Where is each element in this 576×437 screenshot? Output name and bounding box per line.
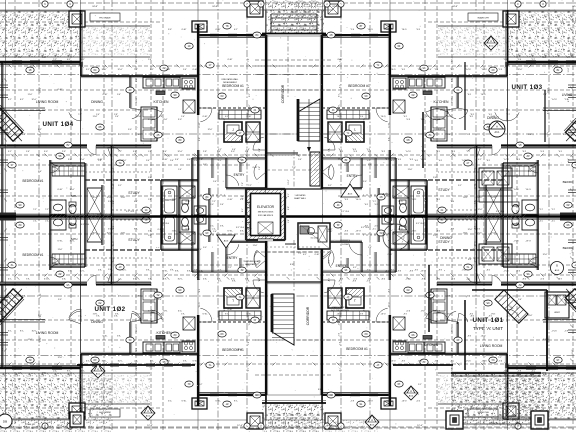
svg-text:6'-10": 6'-10" xyxy=(388,254,393,256)
svg-text:8'-3": 8'-3" xyxy=(248,229,252,231)
corner exterior stair xyxy=(0,105,28,146)
svg-text:11'-6": 11'-6" xyxy=(178,243,183,245)
svg-text:6'-10": 6'-10" xyxy=(103,94,108,96)
bath fixtures: vanity, wc, tub xyxy=(50,200,66,215)
svg-text:12'-0": 12'-0" xyxy=(117,69,122,71)
svg-text:6'-10": 6'-10" xyxy=(182,29,187,31)
svg-text:FIN GRADE: FIN GRADE xyxy=(99,17,111,20)
svg-text:UNIT 1Ø1: UNIT 1Ø1 xyxy=(472,317,503,324)
svg-text:12'-0": 12'-0" xyxy=(122,160,127,162)
svg-text:12'-0": 12'-0" xyxy=(468,229,473,231)
exterior walls xyxy=(198,34,266,36)
svg-text:8'-3": 8'-3" xyxy=(468,259,472,261)
svg-text:4'-1": 4'-1" xyxy=(22,134,26,136)
svg-text:BATH: BATH xyxy=(383,192,390,196)
svg-text:9'-1": 9'-1" xyxy=(238,159,242,161)
svg-text:DINING: DINING xyxy=(487,116,499,120)
svg-text:9'-1" CLG: 9'-1" CLG xyxy=(236,227,245,229)
svg-text:STAIR NOTES SEE: STAIR NOTES SEE xyxy=(332,306,350,309)
svg-text:UNIT 1Ø4: UNIT 1Ø4 xyxy=(42,121,73,128)
svg-text:6'-10": 6'-10" xyxy=(199,122,201,127)
quadrant linework: unit walls, grid, fixtures xyxy=(0,0,294,216)
svg-text:UNIT 1Ø2: UNIT 1Ø2 xyxy=(94,306,125,313)
svg-text:1'-4": 1'-4" xyxy=(194,160,198,162)
svg-text:BATH #2: BATH #2 xyxy=(165,199,175,202)
svg-text:2'-8": 2'-8" xyxy=(288,206,290,210)
mech room xyxy=(298,223,330,249)
svg-text:11'-6": 11'-6" xyxy=(163,119,168,121)
svg-text:11'-6": 11'-6" xyxy=(42,57,47,59)
entry steps xyxy=(271,13,317,15)
svg-text:11'-6": 11'-6" xyxy=(113,167,115,172)
svg-text:11'-6": 11'-6" xyxy=(249,104,251,109)
svg-text:A3.0: A3.0 xyxy=(489,44,494,47)
svg-text:PLAN 1/8: PLAN 1/8 xyxy=(25,423,35,426)
svg-text:9'-1" CLG: 9'-1" CLG xyxy=(496,211,505,213)
svg-text:12'-4": 12'-4" xyxy=(327,425,333,427)
svg-text:9'-1": 9'-1" xyxy=(150,69,154,71)
svg-text:LNDRY: LNDRY xyxy=(554,312,561,314)
svg-text:9'-1": 9'-1" xyxy=(328,185,332,187)
svg-text:BEDROOM #1: BEDROOM #1 xyxy=(23,253,44,257)
svg-text:KITCHEN: KITCHEN xyxy=(154,100,169,104)
svg-text:7'-2": 7'-2" xyxy=(224,128,226,132)
svg-text:3'-0": 3'-0" xyxy=(128,129,132,131)
svg-text:CORRIDOR: CORRIDOR xyxy=(306,306,310,325)
wall junction boxes xyxy=(69,11,85,27)
svg-text:7'-2": 7'-2" xyxy=(248,58,250,62)
svg-text:3'-0": 3'-0" xyxy=(433,177,437,179)
svg-text:9'-1" CLG: 9'-1" CLG xyxy=(126,211,135,213)
svg-text:2'-8": 2'-8" xyxy=(148,119,152,121)
svg-text:PORCH SLAB: PORCH SLAB xyxy=(489,423,505,426)
svg-text:CORRIDOR: CORRIDOR xyxy=(281,84,285,103)
svg-text:LIVING ROOM: LIVING ROOM xyxy=(36,100,59,104)
svg-text:1'-4": 1'-4" xyxy=(217,151,221,153)
svg-text:TEMPERED GLASS: TEMPERED GLASS xyxy=(243,260,261,263)
svg-text:12'-0": 12'-0" xyxy=(518,69,523,71)
mirrored quadrant: lower-left unit xyxy=(0,214,294,430)
svg-text:3'-0": 3'-0" xyxy=(224,118,226,122)
svg-text:1'-4": 1'-4" xyxy=(213,231,217,233)
svg-text:12'-0": 12'-0" xyxy=(338,159,343,161)
svg-text:12'-0": 12'-0" xyxy=(197,29,202,31)
svg-text:12'-0": 12'-0" xyxy=(478,209,483,211)
svg-text:11'-6": 11'-6" xyxy=(58,249,63,251)
svg-text:6'-10": 6'-10" xyxy=(253,167,258,169)
svg-text:9'-1": 9'-1" xyxy=(38,315,42,317)
svg-text:UNIT 1Ø3: UNIT 1Ø3 xyxy=(511,84,542,91)
svg-text:A4.1 TYP PER DWG: A4.1 TYP PER DWG xyxy=(331,309,349,312)
svg-text:A3.1: A3.1 xyxy=(495,131,501,134)
svg-text:3'-0": 3'-0" xyxy=(368,164,372,166)
svg-text:6'-10": 6'-10" xyxy=(228,309,233,311)
svg-text:BEDRO: BEDRO xyxy=(563,246,574,250)
svg-text:6'-10": 6'-10" xyxy=(162,159,167,161)
svg-text:5'-4": 5'-4" xyxy=(408,243,412,245)
svg-text:A3.2: A3.2 xyxy=(146,414,151,417)
svg-text:11'-6": 11'-6" xyxy=(572,315,574,320)
corridor head wall and stipple xyxy=(266,0,324,33)
svg-text:BEDROOM #1: BEDROOM #1 xyxy=(346,347,368,351)
svg-text:9'-1": 9'-1" xyxy=(458,185,462,187)
svg-text:3'-0": 3'-0" xyxy=(178,119,182,121)
svg-text:LIVING ROOM: LIVING ROOM xyxy=(36,331,59,335)
svg-text:BATH: BATH xyxy=(71,194,78,198)
svg-text:12'-0": 12'-0" xyxy=(136,97,138,102)
svg-text:6'-10": 6'-10" xyxy=(5,134,10,136)
svg-text:6'-10": 6'-10" xyxy=(98,159,103,161)
svg-text:3'-0": 3'-0" xyxy=(231,151,235,153)
svg-text:7'-2": 7'-2" xyxy=(33,209,37,211)
svg-text:1'-4": 1'-4" xyxy=(26,151,30,153)
svg-text:1'-4": 1'-4" xyxy=(428,69,432,71)
earth stipple band xyxy=(0,11,80,57)
svg-text:6'-10": 6'-10" xyxy=(247,116,252,118)
svg-text:5'-4": 5'-4" xyxy=(298,159,302,161)
svg-text:OWNER'S: OWNER'S xyxy=(340,240,351,242)
svg-text:LIVING ROOM: LIVING ROOM xyxy=(480,344,503,348)
svg-text:5'-4": 5'-4" xyxy=(38,171,42,173)
svg-text:5'-4": 5'-4" xyxy=(117,94,121,96)
svg-text:12'-0": 12'-0" xyxy=(177,151,182,153)
svg-text:11'-6": 11'-6" xyxy=(28,94,33,96)
svg-text:3'-0": 3'-0" xyxy=(210,204,214,206)
svg-text:DINING: DINING xyxy=(440,236,452,240)
svg-text:1'-4": 1'-4" xyxy=(288,219,290,223)
svg-text:3'-0": 3'-0" xyxy=(203,247,207,249)
svg-text:6'-10": 6'-10" xyxy=(215,29,220,31)
svg-text:24'-8": 24'-8" xyxy=(572,6,576,8)
svg-text:3'-0": 3'-0" xyxy=(168,29,172,31)
svg-text:ENTRY: ENTRY xyxy=(347,174,359,178)
svg-text:BATH: BATH xyxy=(71,237,78,241)
svg-text:5'-4": 5'-4" xyxy=(158,299,162,301)
svg-text:5'-4": 5'-4" xyxy=(213,181,217,183)
svg-text:ENTRY: ENTRY xyxy=(234,173,246,177)
svg-text:BEDRO: BEDRO xyxy=(563,180,574,184)
svg-text:1'-4": 1'-4" xyxy=(2,110,4,114)
svg-text:A3.3: A3.3 xyxy=(555,269,560,272)
svg-text:9'-1": 9'-1" xyxy=(203,164,207,166)
svg-text:2'-8": 2'-8" xyxy=(259,166,261,170)
svg-text:9'-1": 9'-1" xyxy=(136,58,138,62)
svg-text:6'-10": 6'-10" xyxy=(98,214,103,216)
svg-text:5'-4": 5'-4" xyxy=(170,160,174,162)
svg-text:HANDRAIL TYP: HANDRAIL TYP xyxy=(245,263,259,266)
svg-text:SHAFT WALL: SHAFT WALL xyxy=(294,197,306,200)
svg-text:5'-4": 5'-4" xyxy=(220,204,224,206)
svg-text:9'-1": 9'-1" xyxy=(438,129,442,131)
svg-text:6'-10": 6'-10" xyxy=(227,199,232,201)
keynote bubbles xyxy=(185,43,193,49)
svg-text:6'-10": 6'-10" xyxy=(228,59,233,61)
svg-text:11'-6": 11'-6" xyxy=(93,116,98,118)
svg-text:SEE ELEV DWGS: SEE ELEV DWGS xyxy=(258,212,274,214)
svg-text:12'-4": 12'-4" xyxy=(147,425,153,427)
svg-text:9'-1": 9'-1" xyxy=(40,110,42,114)
svg-text:STUDY: STUDY xyxy=(438,188,450,192)
svg-text:11'-6": 11'-6" xyxy=(121,197,126,199)
svg-text:BEDROOM #1: BEDROOM #1 xyxy=(348,84,370,88)
svg-text:24'-8": 24'-8" xyxy=(452,6,458,8)
svg-text:3'-0": 3'-0" xyxy=(58,299,62,301)
svg-text:A3.5: A3.5 xyxy=(370,423,375,426)
svg-text:5'-4": 5'-4" xyxy=(146,160,150,162)
svg-text:6'-10": 6'-10" xyxy=(158,229,163,231)
svg-text:ENTRY: ENTRY xyxy=(336,264,348,268)
svg-text:5'-4": 5'-4" xyxy=(518,299,522,301)
svg-text:4'-1": 4'-1" xyxy=(67,59,71,61)
svg-text:4'-1": 4'-1" xyxy=(478,159,482,161)
svg-text:BEDROOM #1: BEDROOM #1 xyxy=(222,348,244,352)
svg-text:9'-1": 9'-1" xyxy=(118,185,122,187)
svg-text:1'-4": 1'-4" xyxy=(148,59,152,61)
svg-text:8'-3": 8'-3" xyxy=(543,339,547,341)
porch slab and columns xyxy=(451,374,544,426)
svg-text:2'-8": 2'-8" xyxy=(114,114,118,116)
svg-text:7'-2": 7'-2" xyxy=(212,201,216,203)
svg-text:CLOSET: CLOSET xyxy=(341,244,350,246)
svg-text:4'-1": 4'-1" xyxy=(20,99,24,101)
svg-text:10'-2": 10'-2" xyxy=(198,384,203,386)
svg-text:A3.3: A3.3 xyxy=(224,240,229,243)
svg-text:POOL LN: POOL LN xyxy=(36,417,45,419)
svg-text:KITCHEN: KITCHEN xyxy=(157,331,172,335)
interior partition walls xyxy=(0,144,87,146)
svg-text:3'-0": 3'-0" xyxy=(160,199,164,201)
svg-text:11'-6": 11'-6" xyxy=(28,339,33,341)
svg-text:3'-0": 3'-0" xyxy=(160,201,164,203)
svg-text:KITCHEN: KITCHEN xyxy=(434,100,449,104)
svg-text:6'-10": 6'-10" xyxy=(193,69,198,71)
svg-text:9'-1" CLG: 9'-1" CLG xyxy=(81,224,90,226)
svg-text:2'-8": 2'-8" xyxy=(199,159,203,161)
svg-text:11'-6": 11'-6" xyxy=(408,169,413,171)
svg-text:3'-0": 3'-0" xyxy=(68,159,72,161)
svg-text:5'-4": 5'-4" xyxy=(232,149,236,151)
svg-text:8'-3": 8'-3" xyxy=(38,129,42,131)
svg-text:7'-2": 7'-2" xyxy=(18,57,22,59)
svg-text:2'-8": 2'-8" xyxy=(203,151,207,153)
svg-text:STUDY: STUDY xyxy=(128,191,140,195)
svg-text:3'-0": 3'-0" xyxy=(363,181,367,183)
svg-text:9'-1" CLG: 9'-1" CLG xyxy=(361,227,370,229)
svg-text:12'-4": 12'-4" xyxy=(237,425,243,427)
svg-text:7'-2": 7'-2" xyxy=(45,209,49,211)
svg-text:4'-1": 4'-1" xyxy=(248,84,250,88)
svg-text:1'-4": 1'-4" xyxy=(368,247,372,249)
svg-text:24'-8": 24'-8" xyxy=(332,6,338,8)
svg-text:6'-10": 6'-10" xyxy=(315,254,320,256)
svg-text:4'-1": 4'-1" xyxy=(8,99,12,101)
corridor stair (lower) xyxy=(272,294,294,345)
svg-text:9'-1": 9'-1" xyxy=(81,59,85,61)
svg-text:12'-0": 12'-0" xyxy=(106,197,111,199)
svg-text:2'-8": 2'-8" xyxy=(348,299,352,301)
svg-text:3'-0": 3'-0" xyxy=(133,151,137,153)
svg-text:24'-8": 24'-8" xyxy=(212,6,218,8)
svg-text:3'-0": 3'-0" xyxy=(242,195,244,199)
svg-text:3'-0": 3'-0" xyxy=(44,151,48,153)
scan speckle xyxy=(532,409,533,410)
svg-text:A3.1: A3.1 xyxy=(96,372,101,375)
svg-text:7'-2": 7'-2" xyxy=(118,151,122,153)
svg-text:9'-1" CLG: 9'-1" CLG xyxy=(161,223,170,225)
svg-text:12'-0": 12'-0" xyxy=(79,159,84,161)
svg-text:9'-1": 9'-1" xyxy=(433,235,437,237)
svg-text:12'-0": 12'-0" xyxy=(40,131,42,136)
svg-text:7'-2": 7'-2" xyxy=(118,134,122,136)
svg-text:7'-2": 7'-2" xyxy=(242,182,244,186)
svg-text:SLOPE 1/4": SLOPE 1/4" xyxy=(492,419,503,421)
svg-text:12'-0": 12'-0" xyxy=(40,87,42,92)
svg-text:TYPE 'A' UNIT: TYPE 'A' UNIT xyxy=(473,326,503,331)
svg-text:12'-0": 12'-0" xyxy=(208,129,213,131)
svg-text:STUDY: STUDY xyxy=(438,240,450,244)
svg-text:4'-1": 4'-1" xyxy=(138,134,142,136)
svg-text:9'-1" CLG: 9'-1" CLG xyxy=(416,223,425,225)
svg-text:A: A xyxy=(496,124,498,128)
svg-text:4'-1": 4'-1" xyxy=(134,201,138,203)
svg-text:1'-4": 1'-4" xyxy=(96,114,100,116)
svg-text:24'-8": 24'-8" xyxy=(92,6,98,8)
svg-text:ENTRY: ENTRY xyxy=(227,256,239,260)
svg-text:5'-4": 5'-4" xyxy=(163,151,167,153)
svg-text:5'-4": 5'-4" xyxy=(2,126,4,130)
bedroom closet xyxy=(52,166,85,176)
svg-text:DB: DB xyxy=(3,420,7,424)
svg-text:11'-6": 11'-6" xyxy=(572,281,574,286)
svg-text:7'-2": 7'-2" xyxy=(248,185,252,187)
svg-text:11'-6": 11'-6" xyxy=(568,67,570,72)
svg-text:1'-4": 1'-4" xyxy=(178,169,182,171)
svg-text:STUDY: STUDY xyxy=(128,238,140,242)
svg-text:4'-1": 4'-1" xyxy=(568,98,570,102)
svg-text:11'-6": 11'-6" xyxy=(166,69,171,71)
svg-text:BEDROOM #1: BEDROOM #1 xyxy=(23,179,44,183)
svg-text:12'-0": 12'-0" xyxy=(288,179,290,184)
section marker diamonds xyxy=(91,364,105,378)
svg-text:6'-10": 6'-10" xyxy=(328,231,333,233)
svg-text:12'-0": 12'-0" xyxy=(101,69,106,71)
svg-text:9'-1" CLG: 9'-1" CLG xyxy=(341,211,350,213)
svg-text:5'-4": 5'-4" xyxy=(148,235,152,237)
svg-text:12'-0": 12'-0" xyxy=(92,197,97,199)
svg-text:12'-0": 12'-0" xyxy=(58,357,63,359)
svg-text:12'-0": 12'-0" xyxy=(543,254,548,256)
svg-text:1'-4": 1'-4" xyxy=(198,249,202,251)
svg-text:3'-0": 3'-0" xyxy=(148,177,152,179)
svg-text:DINING: DINING xyxy=(91,100,103,104)
svg-text:6'-10": 6'-10" xyxy=(203,116,208,118)
svg-text:6'-10": 6'-10" xyxy=(186,201,191,203)
svg-text:12'-0": 12'-0" xyxy=(137,116,142,118)
svg-text:1'-4": 1'-4" xyxy=(148,151,152,153)
svg-text:12'-0": 12'-0" xyxy=(69,189,74,191)
svg-text:2'-8": 2'-8" xyxy=(136,78,138,82)
svg-text:7'-2": 7'-2" xyxy=(298,253,302,255)
svg-text:2'-8": 2'-8" xyxy=(199,137,201,141)
svg-text:5'-4": 5'-4" xyxy=(183,69,187,71)
svg-text:10'-2": 10'-2" xyxy=(328,229,333,231)
svg-text:4'-1": 4'-1" xyxy=(234,29,238,31)
svg-text:7'-2": 7'-2" xyxy=(218,160,222,162)
svg-text:1'-4": 1'-4" xyxy=(113,200,115,204)
kitchen counters xyxy=(143,77,164,88)
svg-text:1'-4": 1'-4" xyxy=(98,389,102,391)
svg-text:9'-1": 9'-1" xyxy=(418,384,422,386)
svg-text:9'-1": 9'-1" xyxy=(218,149,222,151)
svg-text:FOR CAB SPECS: FOR CAB SPECS xyxy=(258,214,274,217)
svg-text:7'-2": 7'-2" xyxy=(498,357,502,359)
svg-text:FIRE RATED WALL: FIRE RATED WALL xyxy=(222,78,239,81)
svg-text:9'-1": 9'-1" xyxy=(242,208,244,212)
svg-text:5'-8": 5'-8" xyxy=(290,264,295,266)
svg-text:9'-1": 9'-1" xyxy=(249,93,251,97)
svg-text:4'-1": 4'-1" xyxy=(353,267,357,269)
svg-text:9'-1": 9'-1" xyxy=(86,69,90,71)
svg-text:11'-6": 11'-6" xyxy=(528,315,533,317)
svg-text:4'-1": 4'-1" xyxy=(303,254,307,256)
svg-text:2'-8": 2'-8" xyxy=(148,199,152,201)
svg-text:7'-2": 7'-2" xyxy=(228,267,232,269)
svg-text:1'-4": 1'-4" xyxy=(543,94,547,96)
svg-text:3'-0": 3'-0" xyxy=(428,299,432,301)
svg-text:LIVING: LIVING xyxy=(562,93,573,97)
svg-text:4'-1": 4'-1" xyxy=(288,193,290,197)
svg-text:1'-4": 1'-4" xyxy=(528,134,532,136)
svg-text:11'-6": 11'-6" xyxy=(568,37,570,42)
svg-text:ELEVATOR: ELEVATOR xyxy=(257,205,275,209)
svg-text:1 HR RATED: 1 HR RATED xyxy=(294,194,306,197)
svg-text:6'-10": 6'-10" xyxy=(338,59,343,61)
svg-text:1'-4": 1'-4" xyxy=(246,149,250,151)
elevator shaft xyxy=(246,189,285,240)
svg-text:6'-10": 6'-10" xyxy=(113,183,115,188)
svg-text:1'-4": 1'-4" xyxy=(259,148,261,152)
mirrored quadrant: upper-right unit xyxy=(294,0,576,216)
svg-text:2'-8": 2'-8" xyxy=(159,116,163,118)
svg-text:7'-2": 7'-2" xyxy=(134,69,138,71)
svg-text:11'-6": 11'-6" xyxy=(253,245,258,247)
svg-text:BEDROOM #1: BEDROOM #1 xyxy=(222,84,244,88)
svg-text:1'-4": 1'-4" xyxy=(181,116,185,118)
svg-text:6'-10": 6'-10" xyxy=(57,189,62,191)
svg-text:4'-1": 4'-1" xyxy=(29,48,31,52)
svg-text:DINING: DINING xyxy=(91,320,103,324)
svg-text:7'-2": 7'-2" xyxy=(78,114,82,116)
mirrored quadrant: lower-right unit xyxy=(294,214,576,430)
svg-text:6'-10": 6'-10" xyxy=(58,89,63,91)
svg-text:5'-4": 5'-4" xyxy=(175,159,179,161)
svg-text:5'-4": 5'-4" xyxy=(2,94,4,98)
svg-text:3'-0": 3'-0" xyxy=(108,201,112,203)
bedroom closet shelving xyxy=(198,107,266,109)
svg-text:12'-4": 12'-4" xyxy=(417,425,423,427)
corridor stair (upper) xyxy=(298,99,320,141)
svg-text:3'-4": 3'-4" xyxy=(298,249,302,251)
svg-text:3'-0": 3'-0" xyxy=(108,269,112,271)
svg-text:12'-0": 12'-0" xyxy=(29,27,31,32)
svg-text:7'-2": 7'-2" xyxy=(53,59,57,61)
svg-text:5'-4": 5'-4" xyxy=(245,151,249,153)
central party wall xyxy=(0,213,16,221)
svg-text:9'-1": 9'-1" xyxy=(8,151,12,153)
svg-text:A3.3: A3.3 xyxy=(348,193,353,196)
svg-text:A3.4: A3.4 xyxy=(409,394,414,397)
svg-text:9'-1": 9'-1" xyxy=(528,171,532,173)
